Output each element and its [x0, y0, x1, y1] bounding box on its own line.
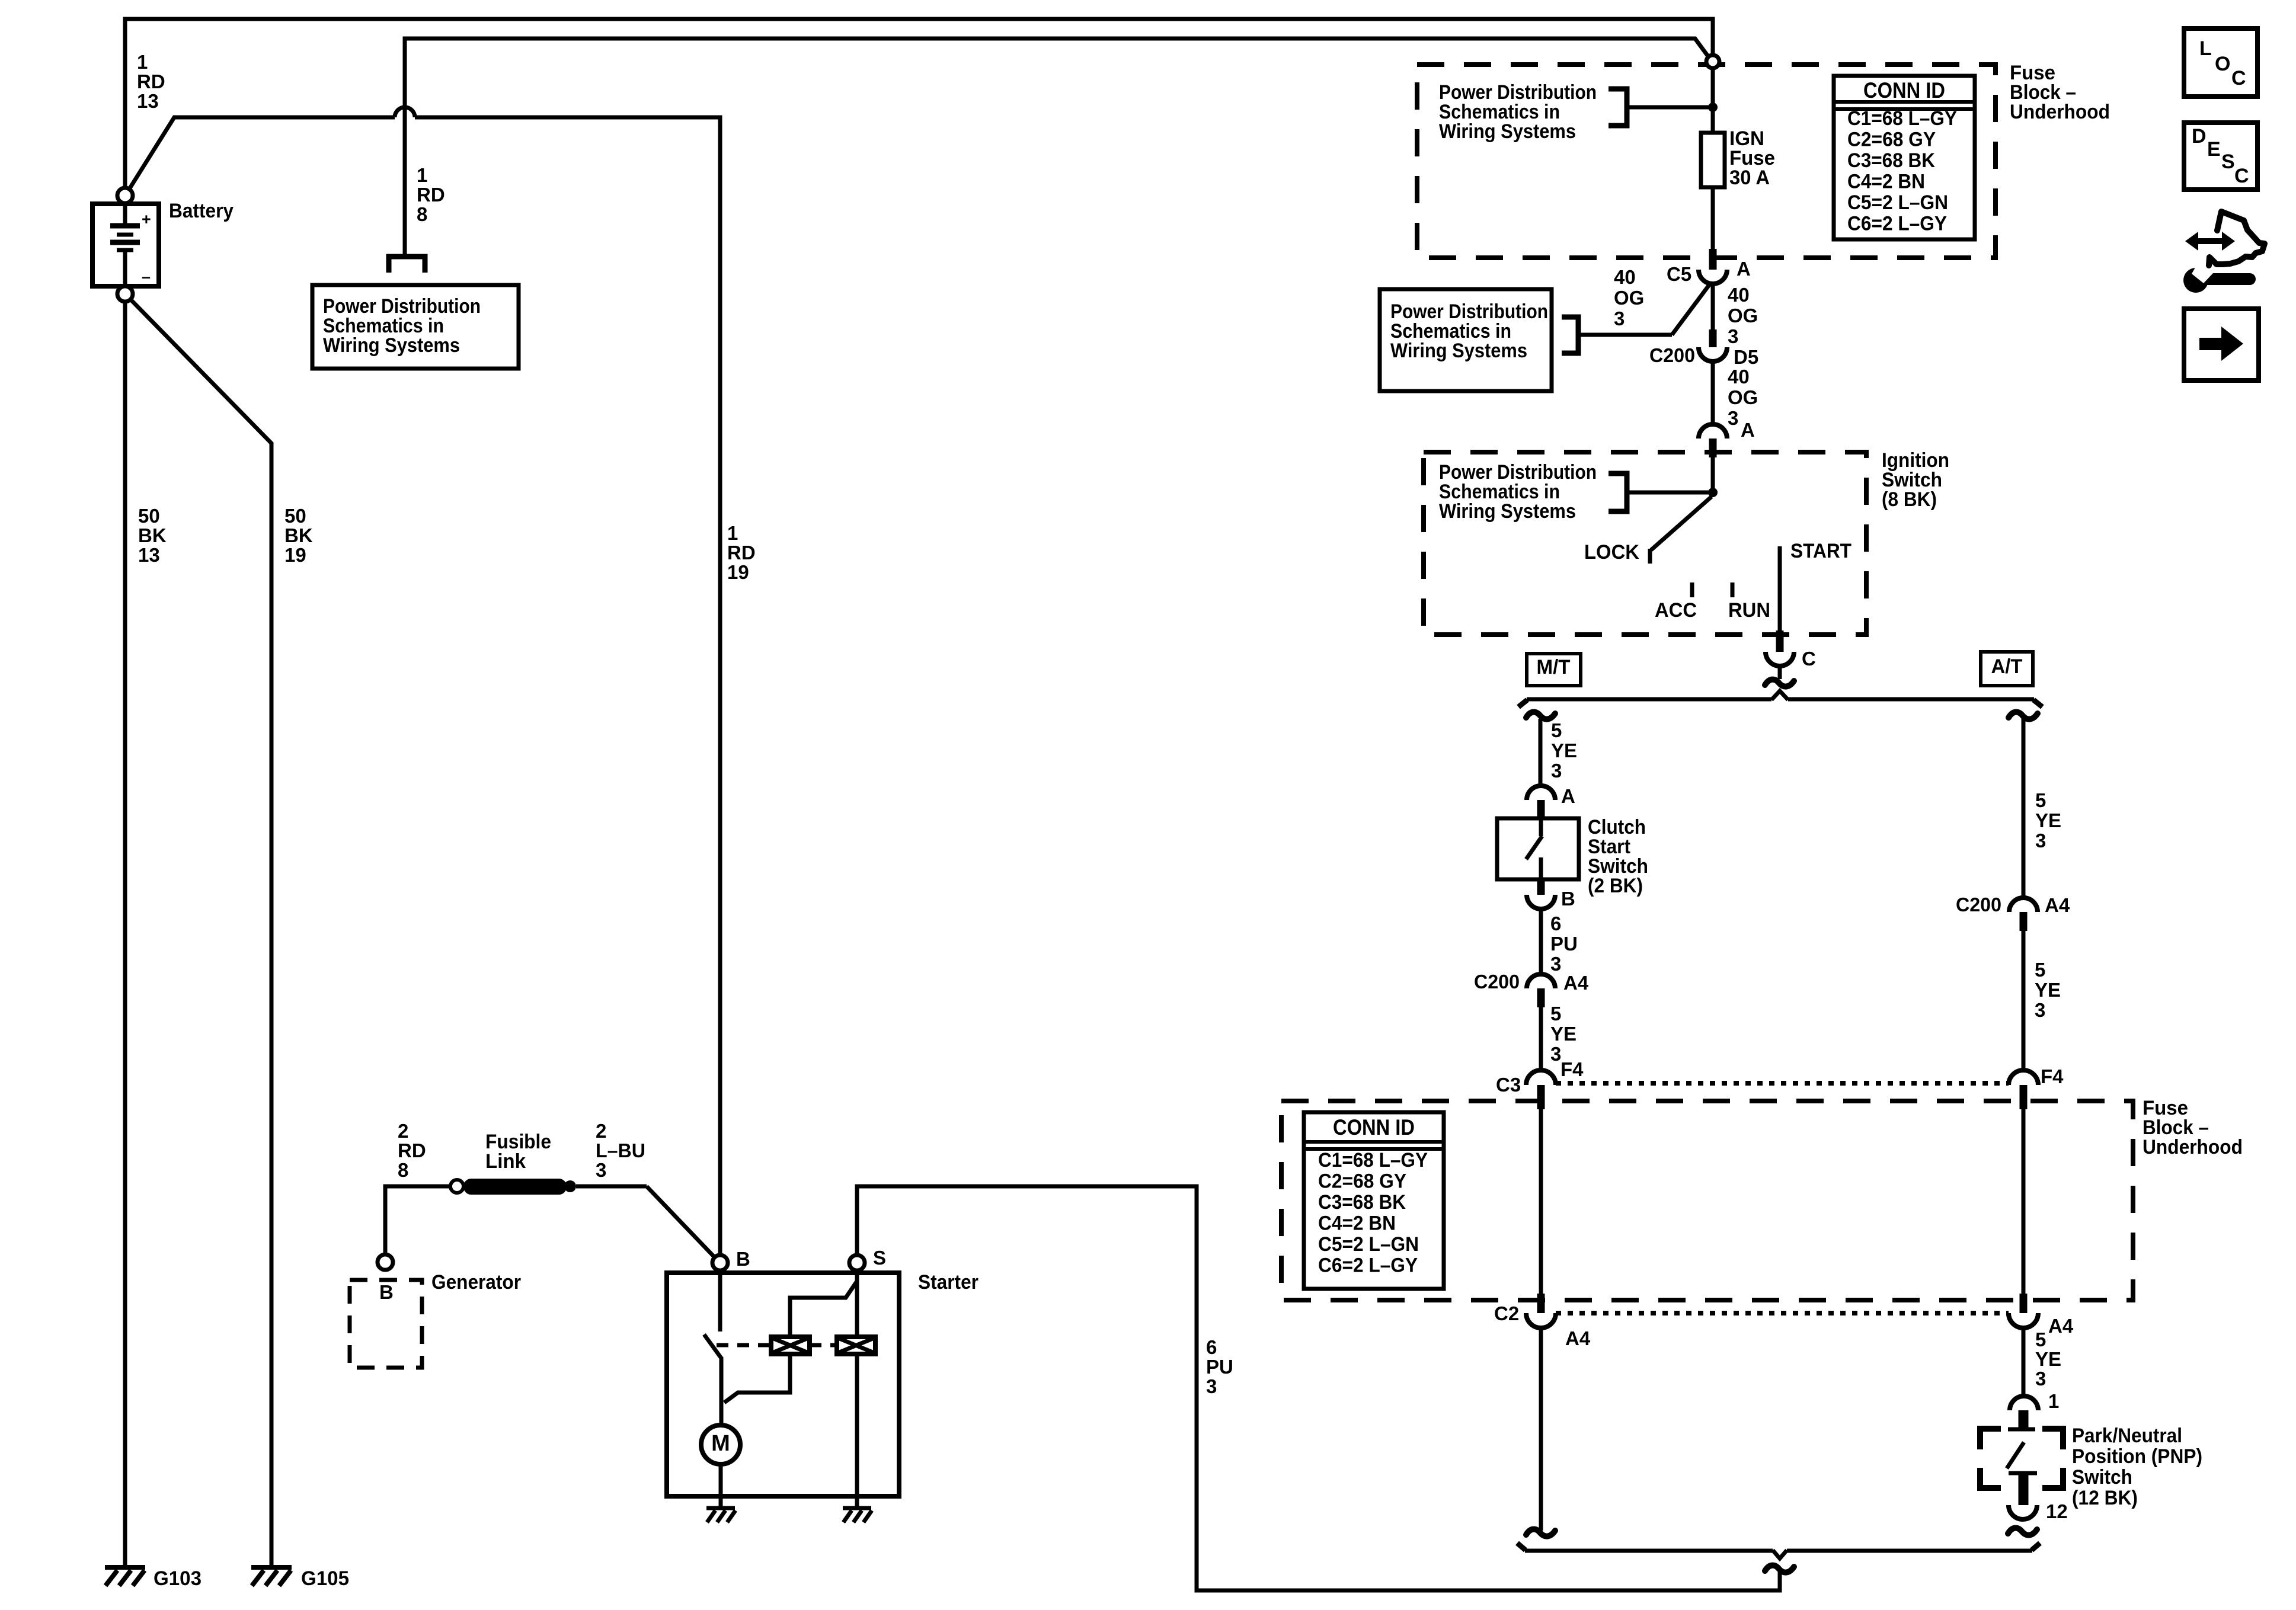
wire hop over 1 RD 8	[395, 107, 415, 117]
svg-text:(8 BK): (8 BK)	[1882, 488, 1937, 511]
connect bracket (fuse block)	[1609, 89, 1627, 126]
connector 1 arc (PNP)	[2010, 1396, 2038, 1410]
svg-text:(2 BK): (2 BK)	[1588, 875, 1643, 897]
svg-text:Wiring Systems: Wiring Systems	[323, 334, 460, 357]
svg-text:G105: G105	[301, 1567, 349, 1590]
connector C3 arc	[1526, 1070, 1556, 1085]
fusible link element	[464, 1179, 566, 1194]
connector C arc	[1766, 652, 1794, 666]
svg-text:G103: G103	[154, 1567, 202, 1590]
starter motor M	[701, 1425, 740, 1464]
wire 5 YE 3 A/T to fuse block	[2022, 931, 2026, 1071]
merge brace V notch	[1773, 1550, 1787, 1558]
svg-text:B: B	[1561, 888, 1575, 910]
svg-text:1: 1	[417, 164, 427, 186]
forward arrow icon	[2199, 338, 2223, 350]
generator box (dashed)	[350, 1280, 422, 1368]
svg-text:5: 5	[2035, 959, 2045, 981]
svg-text:C1=68 L–GY: C1=68 L–GY	[1318, 1149, 1428, 1172]
ignition switch box (dashed)	[1424, 452, 1866, 635]
connector C5 arc	[1699, 270, 1727, 284]
wire through fuse block (M/T)	[1539, 1108, 1543, 1295]
fuse block bus dotted line C3-F4	[1556, 1081, 2009, 1086]
connect bracket to power distribution (top-left)	[389, 257, 425, 273]
svg-text:(12 BK): (12 BK)	[2072, 1487, 2138, 1509]
ignition switch blade to LOCK	[1651, 497, 1712, 550]
svg-text:Switch: Switch	[2072, 1466, 2132, 1489]
connector C200 arc (M/T)	[1527, 974, 1555, 988]
svg-text:BK: BK	[138, 524, 167, 546]
svg-text:C4=2 BN: C4=2 BN	[1318, 1212, 1396, 1235]
svg-text:12: 12	[2046, 1500, 2068, 1522]
svg-text:50: 50	[284, 505, 306, 527]
ground G105	[251, 1565, 292, 1570]
svg-text:19: 19	[727, 561, 749, 583]
svg-text:C2=68 GY: C2=68 GY	[1847, 129, 1936, 151]
svg-text:PU: PU	[1206, 1356, 1233, 1378]
svg-text:M/T: M/T	[1537, 656, 1571, 678]
starter S terminal circle	[849, 1255, 865, 1270]
wire bracket to IGN fuse node	[1627, 105, 1713, 110]
svg-text:C3: C3	[1496, 1074, 1521, 1096]
svg-text:C5: C5	[1667, 263, 1691, 285]
svg-text:C: C	[1802, 648, 1816, 670]
IGN fuse element	[1701, 133, 1725, 187]
svg-text:3: 3	[1206, 1375, 1217, 1397]
clutch switch top contact	[1539, 820, 1543, 836]
svg-text:F4: F4	[2041, 1065, 2064, 1087]
svg-text:Generator: Generator	[431, 1271, 521, 1294]
wire 5 YE 3 to clutch switch	[1539, 719, 1543, 787]
DESC icon box	[2184, 123, 2257, 190]
svg-text:1: 1	[2048, 1390, 2059, 1412]
generator B terminal circle	[378, 1254, 393, 1270]
svg-text:YE: YE	[2035, 979, 2061, 1001]
starter solenoid linkage dashes	[717, 1343, 771, 1347]
connector pin C200 A4 (A/T)	[2020, 912, 2028, 931]
svg-text:ACC: ACC	[1655, 599, 1697, 622]
wire 5 YE 3 C200 to fuse block	[1539, 1007, 1543, 1071]
svg-text:C1=68 L–GY: C1=68 L–GY	[1847, 107, 1957, 130]
branch left end tick	[1518, 700, 1527, 707]
svg-text:D: D	[2192, 125, 2207, 148]
svg-text:C: C	[2234, 165, 2249, 187]
starter contact lead from B	[718, 1270, 722, 1331]
svg-text:A4: A4	[2048, 1315, 2074, 1337]
svg-text:RUN: RUN	[1728, 599, 1770, 622]
starter solenoid ground	[843, 1506, 871, 1510]
merge output squiggle	[1765, 1566, 1794, 1573]
svg-text:C6=2 L–GY: C6=2 L–GY	[1318, 1254, 1418, 1277]
wire bracket to 40 OG 3	[1578, 333, 1672, 337]
wire 50 BK 19 battery negative to G105	[130, 299, 271, 1567]
svg-text:A/T: A/T	[1991, 655, 2023, 678]
connector pin C ignition	[1776, 630, 1784, 652]
svg-text:A4: A4	[1565, 1327, 1591, 1349]
A/T option box	[1981, 652, 2033, 686]
svg-text:6: 6	[1550, 913, 1561, 934]
wire fuse to connector C5	[1711, 187, 1715, 251]
connector C200 arc	[1699, 347, 1727, 361]
svg-text:C200: C200	[1649, 344, 1695, 366]
service icon wrench	[2202, 273, 2256, 285]
M/T merge squiggle	[1526, 1529, 1555, 1537]
svg-text:C5=2 L–GN: C5=2 L–GN	[1847, 191, 1948, 214]
junction node circle at fuse block feed	[1706, 55, 1719, 68]
M/T option box	[1527, 654, 1581, 686]
svg-text:5: 5	[2035, 1329, 2046, 1350]
svg-text:C3=68 BK: C3=68 BK	[1318, 1191, 1406, 1214]
svg-text:RD: RD	[727, 542, 756, 564]
fusible link junction dot	[564, 1180, 576, 1192]
merge brace line	[1525, 1549, 1773, 1553]
svg-text:+: +	[142, 210, 151, 228]
ignition position tick ACC	[1690, 582, 1694, 597]
svg-text:F4: F4	[1560, 1058, 1584, 1080]
svg-text:B: B	[736, 1248, 750, 1270]
forward arrow icon box	[2184, 309, 2259, 380]
svg-text:5: 5	[1550, 1003, 1561, 1025]
PNP switch blade	[2007, 1442, 2024, 1468]
starter contact blade	[704, 1334, 721, 1358]
wire junction circle to fuse	[1711, 68, 1715, 133]
svg-text:3: 3	[2035, 999, 2045, 1021]
crank request branch line	[1527, 697, 1771, 702]
connector pin C5-A	[1709, 249, 1717, 270]
ignition position tick RUN	[1731, 582, 1735, 597]
svg-text:RD: RD	[398, 1140, 426, 1161]
svg-text:YE: YE	[1551, 740, 1577, 761]
svg-text:RD: RD	[137, 71, 165, 92]
wire 5 YE 3 A/T upper	[2022, 718, 2026, 899]
connector B arc (clutch)	[1527, 895, 1555, 909]
svg-text:3: 3	[1551, 760, 1562, 782]
starter pull-in branch	[724, 1354, 790, 1403]
M/T branch squiggle	[1526, 712, 1555, 719]
svg-text:E: E	[2207, 138, 2221, 161]
wire 5 YE 3 to PNP switch	[2022, 1328, 2026, 1397]
svg-text:5: 5	[2035, 789, 2046, 811]
svg-text:RD: RD	[417, 184, 445, 206]
A/T branch squiggle	[2009, 712, 2038, 719]
wire 1 RD 13 battery positive to fuse block (top run)	[125, 19, 1713, 190]
wire C5 to C200	[1711, 283, 1715, 332]
svg-text:C3=68 BK: C3=68 BK	[1847, 149, 1935, 172]
svg-text:Park/Neutral: Park/Neutral	[2072, 1425, 2182, 1447]
connector pin F4 (A/T)	[2020, 1085, 2028, 1109]
connector pin 1 (PNP)	[2019, 1410, 2029, 1430]
svg-text:40: 40	[1728, 366, 1750, 388]
svg-text:C200: C200	[1956, 894, 2001, 916]
svg-text:–: –	[142, 268, 151, 286]
starter solenoid coil 2	[837, 1337, 875, 1354]
starter B terminal circle	[712, 1255, 728, 1270]
svg-text:C6=2 L–GY: C6=2 L–GY	[1847, 213, 1947, 235]
starter box	[667, 1273, 899, 1496]
svg-text:2: 2	[398, 1120, 408, 1142]
svg-text:40: 40	[1614, 266, 1636, 288]
svg-text:3: 3	[1550, 953, 1561, 975]
connector C2 arc	[1526, 1313, 1556, 1328]
svg-text:13: 13	[137, 90, 159, 112]
svg-text:19: 19	[284, 544, 306, 566]
svg-text:B: B	[379, 1281, 394, 1303]
svg-text:L: L	[2199, 37, 2212, 60]
power distribution reference box (top-left)	[312, 285, 519, 369]
connect bracket (mid)	[1562, 317, 1578, 353]
svg-text:Link: Link	[485, 1150, 526, 1173]
svg-text:D5: D5	[1734, 346, 1758, 368]
PNP switch bottom lead pin	[2019, 1473, 2029, 1505]
svg-text:13: 13	[138, 544, 160, 566]
svg-text:40: 40	[1728, 284, 1750, 306]
ground G103	[105, 1565, 145, 1570]
CONN ID table (bottom)	[1304, 1112, 1444, 1289]
merge brace left tick	[1517, 1543, 1526, 1550]
wire 6 PU 3 starter S to crank request	[857, 1186, 1780, 1590]
wire through fuse block (A/T)	[2022, 1108, 2026, 1295]
A/T merge squiggle	[2008, 1528, 2037, 1535]
CONN ID table (top)	[1834, 76, 1975, 239]
svg-text:C200: C200	[1474, 971, 1520, 993]
svg-text:A4: A4	[1563, 972, 1589, 994]
svg-text:5: 5	[1551, 719, 1562, 741]
svg-text:1: 1	[137, 51, 148, 73]
svg-text:YE: YE	[2035, 809, 2061, 831]
svg-text:Underhood: Underhood	[2010, 101, 2110, 123]
wire 2 L-BU 3 fusible link to starter B	[576, 1185, 647, 1189]
connector C tail	[1778, 666, 1782, 679]
connector C200 arc (A/T)	[2009, 898, 2038, 912]
svg-text:Position (PNP): Position (PNP)	[2072, 1445, 2202, 1468]
svg-text:3: 3	[596, 1159, 606, 1181]
svg-text:Wiring Systems: Wiring Systems	[1439, 500, 1576, 523]
svg-text:3: 3	[1728, 407, 1738, 429]
wire 1 RD 19 battery positive to starter B	[127, 117, 395, 192]
junction dot at IGN fuse feed	[1708, 103, 1718, 112]
PNP switch top contact bar	[2008, 1427, 2035, 1432]
svg-text:OG: OG	[1728, 305, 1758, 327]
svg-text:Underhood: Underhood	[2142, 1136, 2243, 1158]
svg-text:CONN ID: CONN ID	[1333, 1115, 1415, 1140]
svg-text:C: C	[2231, 67, 2246, 89]
connector pin C2 A4	[1537, 1294, 1545, 1313]
starter S lead	[855, 1270, 859, 1337]
branch chevron at C	[1771, 691, 1788, 700]
svg-text:3: 3	[2035, 830, 2046, 852]
starter main lead to motor	[720, 1357, 724, 1426]
svg-text:A4: A4	[2045, 894, 2070, 916]
connector pin C200-D5	[1709, 329, 1717, 347]
connector A4 arc (A/T bottom)	[2009, 1313, 2038, 1328]
svg-text:6: 6	[1206, 1336, 1217, 1358]
connector F4 arc (A/T)	[2009, 1070, 2038, 1085]
battery box	[92, 204, 159, 286]
svg-text:C2: C2	[1494, 1302, 1519, 1324]
svg-text:C5=2 L–GN: C5=2 L–GN	[1318, 1233, 1419, 1256]
branch right end tick	[2033, 700, 2042, 707]
merge brace right tick	[2032, 1543, 2040, 1550]
svg-text:CONN ID: CONN ID	[1863, 78, 1945, 103]
svg-text:S: S	[873, 1247, 886, 1269]
service icon double arrow	[2185, 232, 2235, 251]
svg-text:OG: OG	[1614, 287, 1644, 309]
svg-text:OG: OG	[1728, 386, 1758, 408]
wire bracket to ignition node	[1627, 491, 1713, 495]
svg-text:O: O	[2215, 53, 2230, 75]
connector C squiggle	[1765, 680, 1794, 687]
fuse block underhood box (dashed, bottom)	[1281, 1101, 2133, 1300]
battery cells	[123, 203, 127, 224]
starter motor ground lead	[719, 1464, 723, 1508]
connector A arc (ignition feed)	[1699, 424, 1727, 438]
svg-text:START: START	[1790, 540, 1851, 562]
service icon outline	[2209, 212, 2265, 265]
svg-text:PU: PU	[1550, 933, 1578, 955]
starter solenoid coil 1	[771, 1337, 810, 1354]
fuse block bus dotted line C2-A4	[1556, 1311, 2009, 1315]
wire 50 BK 13 battery negative to G103	[123, 302, 127, 1567]
fuse block underhood box (dashed, top)	[1417, 65, 1996, 258]
starter pull-in top link	[790, 1281, 857, 1337]
battery positive terminal circle	[117, 188, 133, 203]
connector A arc (clutch)	[1527, 786, 1555, 800]
fusible link terminal circle	[450, 1180, 463, 1193]
PNP switch box corners (dashed)	[1980, 1429, 2001, 1449]
svg-text:LOCK: LOCK	[1584, 541, 1639, 564]
connect bracket (ignition)	[1609, 473, 1627, 511]
svg-text:BK: BK	[284, 524, 313, 546]
svg-text:C4=2 BN: C4=2 BN	[1847, 171, 1925, 193]
starter S lead through coil to ground	[855, 1354, 859, 1508]
svg-text:L–BU: L–BU	[596, 1140, 645, 1161]
svg-text:A: A	[1741, 419, 1755, 441]
wire C200 to ignition switch A	[1711, 361, 1715, 425]
clutch start switch box	[1497, 818, 1579, 879]
connector 12 arc (PNP)	[2009, 1505, 2037, 1519]
junction dot ignition feed	[1708, 488, 1718, 497]
LOC icon box	[2184, 28, 2257, 97]
svg-text:YE: YE	[2035, 1348, 2061, 1370]
svg-text:8: 8	[417, 203, 427, 225]
svg-text:A: A	[1737, 258, 1751, 280]
connector pin C200 A4	[1537, 988, 1545, 1007]
wire 6 PU 3 clutch to C200	[1539, 909, 1543, 975]
svg-text:C2=68 GY: C2=68 GY	[1318, 1170, 1406, 1193]
power distribution reference box (mid)	[1380, 289, 1552, 391]
PNP switch bottom contact bar	[2009, 1471, 2037, 1475]
connector pin A4 (A/T bottom)	[2020, 1294, 2028, 1313]
wire 2 RD 8 generator feed	[385, 1186, 450, 1254]
svg-text:3: 3	[2035, 1368, 2046, 1390]
svg-text:A: A	[1561, 785, 1575, 807]
ignition switch wiper from A	[1711, 457, 1715, 497]
svg-text:8: 8	[398, 1159, 408, 1181]
svg-text:30 A: 30 A	[1729, 167, 1770, 189]
wire C2 to M/T merge	[1539, 1328, 1543, 1531]
svg-text:Wiring Systems: Wiring Systems	[1390, 340, 1527, 362]
connector pin C3 F4	[1537, 1085, 1545, 1109]
svg-text:Battery: Battery	[169, 200, 234, 222]
svg-text:50: 50	[138, 505, 160, 527]
svg-text:Starter: Starter	[918, 1271, 978, 1294]
ignition START contact lead	[1778, 546, 1782, 632]
svg-text:M: M	[711, 1431, 730, 1456]
svg-text:3: 3	[1550, 1043, 1561, 1065]
svg-text:YE: YE	[1550, 1023, 1576, 1045]
svg-text:3: 3	[1614, 308, 1625, 329]
wire 1 RD 8 branch (second top run)	[405, 39, 1708, 255]
clutch switch bottom contact	[1539, 857, 1543, 879]
clutch switch blade	[1526, 836, 1542, 859]
connector pin A ignition	[1709, 438, 1717, 457]
svg-text:3: 3	[1728, 325, 1738, 347]
svg-text:S: S	[2221, 151, 2235, 173]
battery negative terminal circle	[117, 286, 133, 302]
svg-text:2: 2	[596, 1120, 606, 1142]
svg-text:Wiring Systems: Wiring Systems	[1439, 120, 1576, 143]
connector pin B clutch	[1537, 879, 1545, 895]
svg-text:1: 1	[727, 522, 738, 544]
starter motor ground	[706, 1506, 735, 1510]
connector pin A clutch	[1537, 800, 1545, 820]
